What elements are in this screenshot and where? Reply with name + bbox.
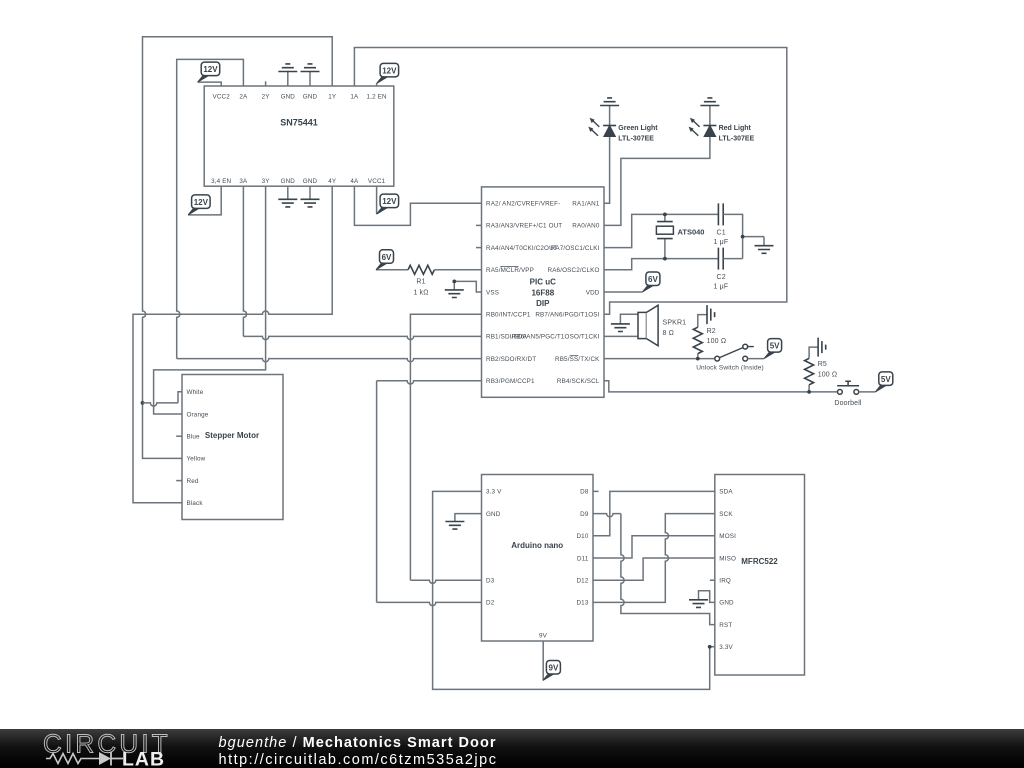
wire switch to 5V flag (748, 339, 782, 359)
crystal X1 ATS040 (656, 214, 704, 258)
svg-text:LTL-307EE: LTL-307EE (719, 135, 755, 142)
LED D2 Red Light LTL-307EE (689, 118, 755, 143)
svg-text:http://circuitlab.com/c6tzm535: http://circuitlab.com/c6tzm535a2jpc (219, 752, 498, 768)
CircuitLab logo text (43, 729, 171, 768)
svg-text:100 Ω: 100 Ω (818, 371, 838, 378)
ground (speaker) (611, 314, 638, 331)
svg-text:Green Light: Green Light (618, 125, 658, 132)
6V flag (VDD) (604, 272, 660, 292)
svg-text:SDA: SDA (719, 489, 733, 496)
capacitor C1 1uF (714, 203, 729, 246)
svg-text:RB4/SCK/SCL: RB4/SCK/SCL (557, 378, 600, 385)
svg-text:12V: 12V (382, 197, 397, 206)
svg-text:RA1/AN1: RA1/AN1 (572, 201, 600, 208)
svg-text:RB5/SS/TX/CK: RB5/SS/TX/CK (555, 356, 600, 363)
svg-text:White: White (187, 389, 204, 396)
svg-text:6V: 6V (648, 275, 658, 284)
svg-text:GND: GND (281, 178, 296, 185)
wire RB5 to unlock switch (604, 358, 715, 360)
svg-text:9V: 9V (539, 633, 548, 640)
svg-text:Blue: Blue (187, 434, 201, 441)
svg-text:VCC1: VCC1 (368, 178, 386, 185)
pin stub D8 (n/c) (593, 490, 599, 492)
wire C2 to right vertical (723, 258, 742, 260)
svg-text:5V: 5V (881, 375, 891, 384)
svg-text:1 kΩ: 1 kΩ (413, 289, 428, 296)
svg-text:RA0/AN0: RA0/AN0 (572, 223, 600, 230)
svg-text:RA7/OSC1/CLKI: RA7/OSC1/CLKI (551, 245, 600, 252)
Arduino nano box (482, 475, 594, 642)
svg-text:5V: 5V (770, 342, 780, 351)
svg-text:C2: C2 (717, 274, 726, 281)
svg-text:SPKR1: SPKR1 (663, 319, 687, 326)
svg-text:LTL-307EE: LTL-307EE (618, 135, 654, 142)
ground (SN75441 bottom GND pin 2) (301, 186, 320, 207)
ground (MFRC GND) (689, 591, 715, 608)
svg-text:4A: 4A (350, 178, 359, 185)
junction node (crystal top) (663, 213, 667, 217)
svg-text:D11: D11 (577, 555, 589, 562)
wire doorbell to 5V flag (859, 372, 893, 392)
svg-text:ATS040: ATS040 (678, 228, 705, 237)
ground (SN75441 bottom GND pin 1) (278, 186, 297, 207)
svg-text:VSS: VSS (486, 289, 499, 296)
svg-text:RB0/INT/CCP1: RB0/INT/CCP1 (486, 312, 531, 319)
svg-text:3Y: 3Y (262, 178, 271, 185)
junction node (crystal bottom) (663, 257, 667, 261)
svg-text:RB3/PGM/CCP1: RB3/PGM/CCP1 (486, 378, 535, 385)
svg-text:2Y: 2Y (262, 94, 271, 101)
wire 3A to PIC RB1 (243, 186, 246, 336)
wire stepper White jog (143, 403, 179, 406)
wire 3Y to stepper Orange (154, 186, 266, 414)
red LED wire to RA0 (604, 137, 710, 226)
svg-text:100 Ω: 100 Ω (707, 338, 727, 345)
svg-text:R5: R5 (818, 361, 827, 368)
wire RB7 to 1A (big loop) (354, 48, 786, 315)
capacitor C2 1uF (714, 248, 729, 291)
svg-text:GND: GND (303, 178, 318, 185)
wire RB6 to speaker (604, 335, 638, 337)
svg-text:D10: D10 (576, 533, 588, 540)
svg-text:1Y: 1Y (328, 94, 337, 101)
svg-text:R1: R1 (416, 279, 425, 286)
wire 4Y to stepper Black (133, 186, 332, 503)
svg-text:1 μF: 1 μF (714, 239, 729, 246)
junction node (osc ground tap) (741, 235, 745, 239)
wire RB3 to Arduino D2 (377, 381, 482, 384)
svg-text:R2: R2 (707, 328, 716, 335)
svg-text:bguenthe / Mechatonics Smart D: bguenthe / Mechatonics Smart Door (219, 735, 497, 751)
ground (VSS) (445, 280, 464, 298)
wire to oscillator ground (743, 236, 764, 238)
wire Arduino 3.3V rail to MFRC 3.3V (433, 491, 715, 689)
ground (SN75441 top GND pin 2) (301, 64, 320, 86)
svg-text:Unlock Switch (Inside): Unlock Switch (Inside) (696, 364, 764, 371)
svg-text:SCK: SCK (719, 511, 733, 518)
svg-text:RST: RST (719, 622, 732, 629)
12V supply flag (3,4 EN) (188, 186, 221, 215)
junction node (White/Yellow tap) (141, 401, 145, 405)
wire RA6/OSC2 to crystal net (bottom) (604, 259, 718, 270)
svg-text:3.3V: 3.3V (719, 644, 733, 651)
svg-text:4Y: 4Y (328, 178, 337, 185)
svg-text:GND: GND (281, 94, 296, 101)
MFRC522 box (715, 475, 805, 676)
svg-text:8 Ω: 8 Ω (663, 330, 675, 337)
green LED wire to RA1 (604, 137, 610, 204)
svg-text:D12: D12 (576, 578, 588, 585)
resistor R2 100 Ohm (693, 315, 726, 359)
resistor R1 1 kOhm (408, 265, 482, 296)
svg-text:MOSI: MOSI (719, 533, 736, 540)
speaker SPKR1 8 Ohm (638, 305, 686, 346)
junction node (MFRC 3.3V stub) (708, 645, 712, 649)
pin stub RA4 (n/c) (476, 247, 482, 249)
svg-text:12V: 12V (194, 198, 209, 207)
ground (green LED) (600, 98, 619, 126)
12V supply flag (VCC1) (377, 186, 399, 214)
svg-text:GND: GND (486, 511, 501, 518)
ground (R2 pull, rotated) (707, 305, 715, 324)
wire VSS to ground (454, 281, 481, 292)
12V supply flag (VCC2) (198, 62, 222, 86)
svg-text:6V: 6V (382, 253, 392, 262)
pushbutton Doorbell (834, 381, 862, 407)
wire RB0 to Arduino D3 (410, 314, 481, 580)
svg-text:D2: D2 (486, 600, 495, 607)
ground (Arduino GND) (445, 514, 481, 530)
svg-text:Doorbell: Doorbell (834, 400, 862, 407)
svg-text:VCC2: VCC2 (212, 94, 230, 101)
12V supply flag (1,2 EN) (377, 63, 399, 86)
9V flag (Arduino) (543, 641, 561, 681)
svg-text:12V: 12V (382, 66, 397, 75)
svg-text:MFRC522: MFRC522 (741, 557, 778, 566)
LED D1 Green Light LTL-307EE (588, 118, 658, 143)
svg-text:PIC uC: PIC uC (530, 278, 556, 287)
svg-text:Stepper Motor: Stepper Motor (205, 431, 259, 440)
wire C1 to right vertical (723, 214, 742, 258)
svg-text:RB2/SDO/RX/DT: RB2/SDO/RX/DT (486, 356, 536, 363)
pin stub 2Y (n/c) (265, 81, 267, 86)
svg-text:RA6/OSC2/CLKO: RA6/OSC2/CLKO (548, 267, 600, 274)
svg-text:3A: 3A (239, 178, 248, 185)
ground (oscillator) (755, 237, 774, 254)
wire D9 to MFRC RST (593, 514, 621, 517)
wire 2A to PIC RB2 (177, 59, 244, 358)
bottom banner (0, 729, 1024, 768)
svg-text:RB6/AN5/PGC/T1OSO/T1CKI: RB6/AN5/PGC/T1OSO/T1CKI (512, 334, 600, 341)
svg-text:3,4 EN: 3,4 EN (211, 178, 231, 185)
svg-text:16F88: 16F88 (531, 288, 554, 297)
svg-text:IRQ: IRQ (719, 578, 731, 585)
svg-text:GND: GND (303, 94, 318, 101)
ground (R5 pull, rotated) (818, 338, 826, 357)
wire RB4 to doorbell (604, 381, 837, 392)
svg-text:1,2 EN: 1,2 EN (367, 94, 387, 101)
svg-text:SN75441: SN75441 (280, 118, 318, 128)
wire D12 to MFRC MISO (593, 558, 715, 580)
wire RA7/OSC1 to crystal net (top) (604, 214, 718, 247)
wire PIC RA2 to 4A (354, 186, 481, 225)
svg-text:RA4/AN4/T0CKI/C2OUT: RA4/AN4/T0CKI/C2OUT (486, 245, 558, 252)
wire 1Y to stepper White/Yellow (top loop) (143, 37, 333, 459)
pin stub Red (n/c) (176, 480, 182, 482)
6V flag + wire to R1 (376, 250, 408, 270)
svg-text:12V: 12V (203, 65, 218, 74)
svg-text:2A: 2A (239, 94, 248, 101)
svg-text:DIP: DIP (536, 299, 550, 308)
svg-text:VDD: VDD (586, 289, 600, 296)
MCLR overline (500, 266, 518, 268)
svg-text:Red Light: Red Light (719, 125, 752, 132)
svg-text:Red: Red (187, 478, 199, 485)
svg-text:RA3/AN3/VREF+/C1 OUT: RA3/AN3/VREF+/C1 OUT (486, 223, 562, 230)
resistor R5 100 Ohm (805, 347, 838, 392)
svg-text:Black: Black (187, 500, 204, 507)
svg-text:RA2/ AN2/CVREF/VREF-: RA2/ AN2/CVREF/VREF- (486, 201, 560, 208)
svg-text:GND: GND (719, 600, 734, 607)
svg-text:1 μF: 1 μF (714, 283, 729, 290)
wire D11 to MFRC MOSI (593, 536, 715, 558)
svg-text:D9: D9 (580, 511, 589, 518)
pin stub Blue (n/c) (176, 435, 182, 437)
svg-text:LAB: LAB (122, 749, 165, 768)
svg-text:1A: 1A (350, 94, 359, 101)
svg-text:D8: D8 (580, 489, 589, 496)
svg-text:9V: 9V (549, 664, 559, 673)
ground (red LED) (700, 98, 719, 126)
junction node (R2/RB5) (696, 357, 700, 361)
switch SW1 Unlock Switch (Inside) (696, 344, 764, 371)
wire D10 to MFRC SDA (593, 491, 715, 535)
svg-text:Orange: Orange (187, 411, 209, 418)
PIC uC 16F88 DIP box (482, 187, 605, 397)
svg-text:3.3 V: 3.3 V (486, 489, 502, 496)
svg-text:D13: D13 (576, 600, 588, 607)
svg-text:RA5/MCLR/VPP: RA5/MCLR/VPP (486, 267, 534, 274)
junction node (R5/doorbell) (807, 390, 811, 394)
SS overline (570, 354, 579, 356)
banner title (219, 735, 498, 768)
svg-text:D3: D3 (486, 578, 495, 585)
stepper motor box (182, 375, 283, 520)
pin stub IRQ (n/c) (710, 579, 715, 581)
svg-text:Yellow: Yellow (187, 456, 206, 463)
svg-text:C1: C1 (717, 229, 726, 236)
svg-text:RB7/AN6/PGD/T1OSI: RB7/AN6/PGD/T1OSI (535, 312, 599, 319)
ground (SN75441 top GND pin 1) (278, 64, 297, 86)
wire D13 to MFRC SCK (593, 514, 715, 603)
SN75441 driver IC U-box (204, 86, 394, 186)
pin stub RA3 (n/c) (476, 224, 482, 226)
svg-text:MISO: MISO (719, 555, 736, 562)
svg-text:Arduino nano: Arduino nano (511, 541, 563, 550)
